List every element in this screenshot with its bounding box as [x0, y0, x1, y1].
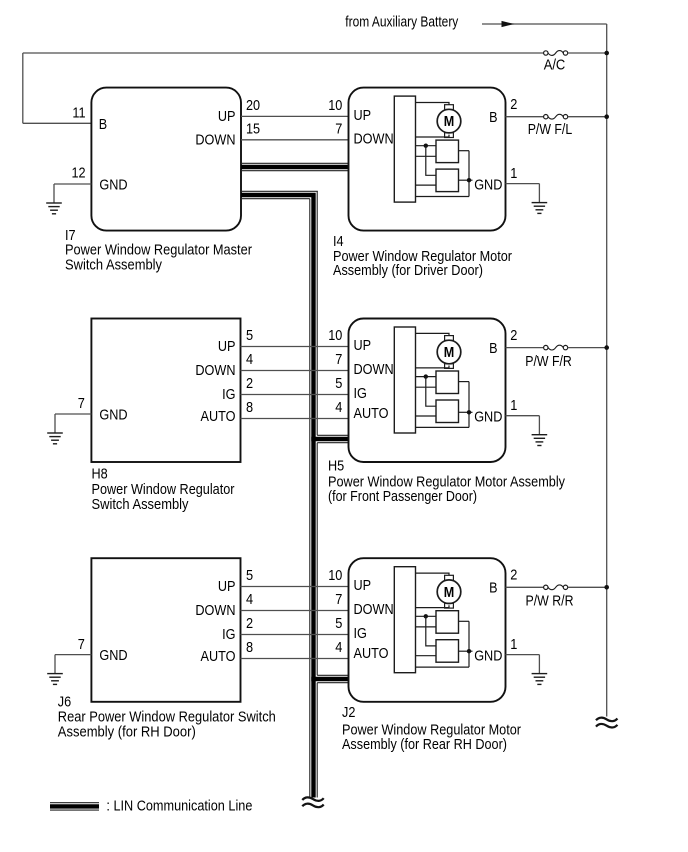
- svg-text:DOWN: DOWN: [354, 361, 394, 378]
- svg-text:8: 8: [246, 639, 253, 656]
- svg-text:GND: GND: [474, 176, 502, 193]
- svg-text:DOWN: DOWN: [354, 130, 394, 147]
- svg-text:A/C: A/C: [544, 56, 566, 73]
- svg-text:H5: H5: [328, 458, 344, 475]
- svg-text:AUTO: AUTO: [201, 648, 236, 665]
- svg-text:M: M: [444, 345, 455, 361]
- svg-text:P/W R/R: P/W R/R: [526, 593, 574, 610]
- svg-text:from Auxiliary Battery: from Auxiliary Battery: [345, 13, 458, 30]
- svg-text:7: 7: [78, 636, 85, 653]
- svg-text:7: 7: [78, 395, 85, 412]
- svg-text:B: B: [489, 340, 497, 357]
- svg-text:1: 1: [510, 397, 517, 414]
- svg-text:5: 5: [246, 327, 253, 344]
- svg-text:15: 15: [246, 120, 260, 137]
- svg-text:Assembly (for RH Door): Assembly (for RH Door): [58, 724, 196, 741]
- svg-text:GND: GND: [99, 177, 127, 194]
- svg-text:Switch Assembly: Switch Assembly: [92, 496, 189, 513]
- svg-text:UP: UP: [354, 337, 372, 354]
- svg-text:P/W F/L: P/W F/L: [528, 121, 573, 138]
- svg-text:2: 2: [510, 327, 517, 344]
- svg-text:UP: UP: [354, 577, 372, 594]
- svg-text:UP: UP: [218, 578, 236, 595]
- svg-text:B: B: [489, 580, 497, 597]
- svg-text:M: M: [444, 114, 455, 130]
- svg-text:1: 1: [510, 636, 517, 653]
- svg-text:4: 4: [335, 639, 342, 656]
- svg-text:2: 2: [510, 96, 517, 113]
- svg-text:M: M: [444, 585, 455, 601]
- svg-text:8: 8: [246, 399, 253, 416]
- svg-text:AUTO: AUTO: [354, 645, 389, 662]
- svg-text:IG: IG: [222, 386, 235, 403]
- svg-text:Switch Assembly: Switch Assembly: [65, 257, 162, 274]
- svg-text:DOWN: DOWN: [195, 131, 235, 148]
- svg-text:2: 2: [246, 375, 253, 392]
- svg-text:10: 10: [328, 327, 342, 344]
- svg-text:5: 5: [335, 375, 342, 392]
- svg-text:B: B: [99, 116, 107, 133]
- svg-text:AUTO: AUTO: [354, 405, 389, 422]
- svg-text:4: 4: [246, 591, 253, 608]
- svg-text:11: 11: [72, 105, 85, 122]
- svg-text:4: 4: [335, 399, 342, 416]
- svg-text:P/W F/R: P/W F/R: [525, 353, 572, 370]
- svg-text:5: 5: [335, 615, 342, 632]
- svg-text:10: 10: [328, 97, 342, 114]
- svg-text:GND: GND: [474, 409, 502, 426]
- svg-text:2: 2: [246, 615, 253, 632]
- svg-text:7: 7: [335, 351, 342, 368]
- svg-text:(for Front Passenger Door): (for Front Passenger Door): [328, 488, 477, 505]
- svg-text:1: 1: [510, 165, 517, 182]
- svg-text:4: 4: [246, 351, 253, 368]
- svg-text:AUTO: AUTO: [201, 408, 236, 425]
- svg-text:20: 20: [246, 97, 260, 114]
- svg-text:12: 12: [72, 165, 86, 182]
- svg-text:DOWN: DOWN: [195, 602, 235, 619]
- svg-text:2: 2: [510, 567, 517, 584]
- svg-text:GND: GND: [474, 647, 502, 664]
- svg-text:IG: IG: [222, 626, 235, 643]
- svg-text:DOWN: DOWN: [195, 362, 235, 379]
- svg-text:: LIN Communication Line: : LIN Communication Line: [106, 798, 252, 815]
- svg-text:Assembly (for Driver Door): Assembly (for Driver Door): [333, 262, 483, 279]
- svg-text:7: 7: [335, 591, 342, 608]
- svg-text:J2: J2: [342, 704, 355, 721]
- svg-text:UP: UP: [218, 108, 236, 125]
- svg-text:GND: GND: [99, 647, 127, 664]
- svg-text:IG: IG: [354, 385, 367, 402]
- svg-text:UP: UP: [354, 107, 372, 124]
- svg-text:DOWN: DOWN: [354, 601, 394, 618]
- svg-text:10: 10: [328, 567, 342, 584]
- svg-text:Assembly (for Rear RH Door): Assembly (for Rear RH Door): [342, 736, 507, 753]
- svg-text:GND: GND: [99, 407, 127, 424]
- svg-text:B: B: [489, 109, 497, 126]
- svg-text:IG: IG: [354, 625, 367, 642]
- svg-text:UP: UP: [218, 338, 236, 355]
- svg-text:7: 7: [335, 121, 342, 138]
- svg-text:5: 5: [246, 567, 253, 584]
